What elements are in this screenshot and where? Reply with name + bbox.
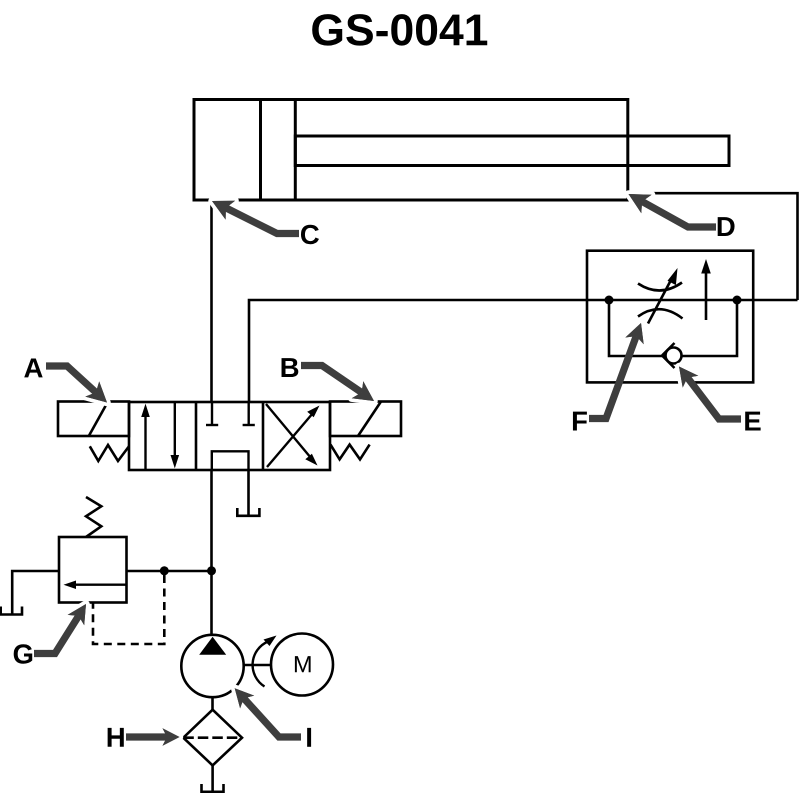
- wire: relief valve inlet to pump line: [127, 570, 212, 573]
- leader arrow A: [46, 366, 107, 403]
- wire: pump inlet to filter: [211, 697, 214, 710]
- wire: valve T port to tank: [247, 470, 250, 516]
- motor shaft: [244, 664, 272, 667]
- pilot line (dashed): [93, 575, 164, 644]
- tank symbol (valve T): [237, 508, 259, 516]
- rotation direction arc: [253, 636, 277, 687]
- directional valve body (4/3): [129, 402, 330, 470]
- wire: filter to tank: [211, 765, 214, 791]
- variable flow restrictor F (arcs + adjustment arrow): [638, 268, 683, 324]
- left position: parallel flow arrows: [141, 402, 179, 470]
- relief valve G box: [59, 537, 127, 603]
- spring (left, under solenoid A): [90, 445, 129, 461]
- leader arrow G: [34, 604, 86, 654]
- check valve E (ball and seat): [662, 343, 682, 368]
- cylinder (double-acting) body: [194, 100, 628, 201]
- center position: blocked A/B, tandem P-T: [206, 402, 255, 470]
- tank symbol (filter suction): [202, 784, 224, 792]
- spring (right, under solenoid B): [330, 444, 369, 459]
- solenoid B box: [330, 402, 401, 437]
- node: pilot junction: [160, 566, 169, 575]
- right position: crossed flow arrows: [266, 404, 320, 467]
- node: right junction: [733, 296, 742, 305]
- tank symbol (relief valve): [1, 607, 22, 615]
- label D: [718, 217, 735, 236]
- wire: valve P port to pump: [210, 470, 213, 636]
- label E: [745, 412, 760, 431]
- leader arrow H: [126, 728, 180, 746]
- label H: [108, 728, 124, 747]
- pump I circle: [181, 635, 243, 697]
- pump outlet triangle: [199, 637, 226, 655]
- node: left junction: [605, 296, 614, 305]
- leader arrow F: [589, 323, 644, 419]
- wire: cylinder cap-end port C to valve port A: [210, 200, 213, 402]
- leader arrow C: [212, 201, 299, 234]
- label F: [573, 412, 587, 431]
- label A: [24, 358, 42, 377]
- label B: [282, 358, 299, 377]
- flow control assembly box E/F: [587, 251, 753, 383]
- label G: [14, 644, 33, 663]
- wire: valve port B up and right to flow control (main line): [249, 300, 798, 402]
- filter H (diamond): [183, 710, 242, 766]
- leader arrow D: [629, 194, 717, 227]
- label C: [301, 225, 319, 244]
- label I: [307, 728, 311, 747]
- leader arrow I: [235, 688, 301, 737]
- leader arrow B: [301, 366, 374, 402]
- title GS-0041: [312, 14, 487, 46]
- wire: bypass loop with check valve: [609, 300, 737, 356]
- node: pump line junction: [207, 566, 216, 575]
- wire: relief valve tank port: [12, 571, 59, 615]
- motor letter: [295, 656, 311, 672]
- relief valve internal flow arrow: [64, 581, 127, 590]
- motor M circle: [271, 634, 333, 696]
- free-flow direction arrow: [701, 259, 711, 320]
- cylinder piston rod: [295, 136, 729, 166]
- solenoid A box: [58, 402, 129, 437]
- wire: cylinder rod-end port D to flow-control line: [628, 193, 798, 300]
- leader arrow E: [679, 367, 741, 420]
- relief valve spring (top): [86, 497, 101, 537]
